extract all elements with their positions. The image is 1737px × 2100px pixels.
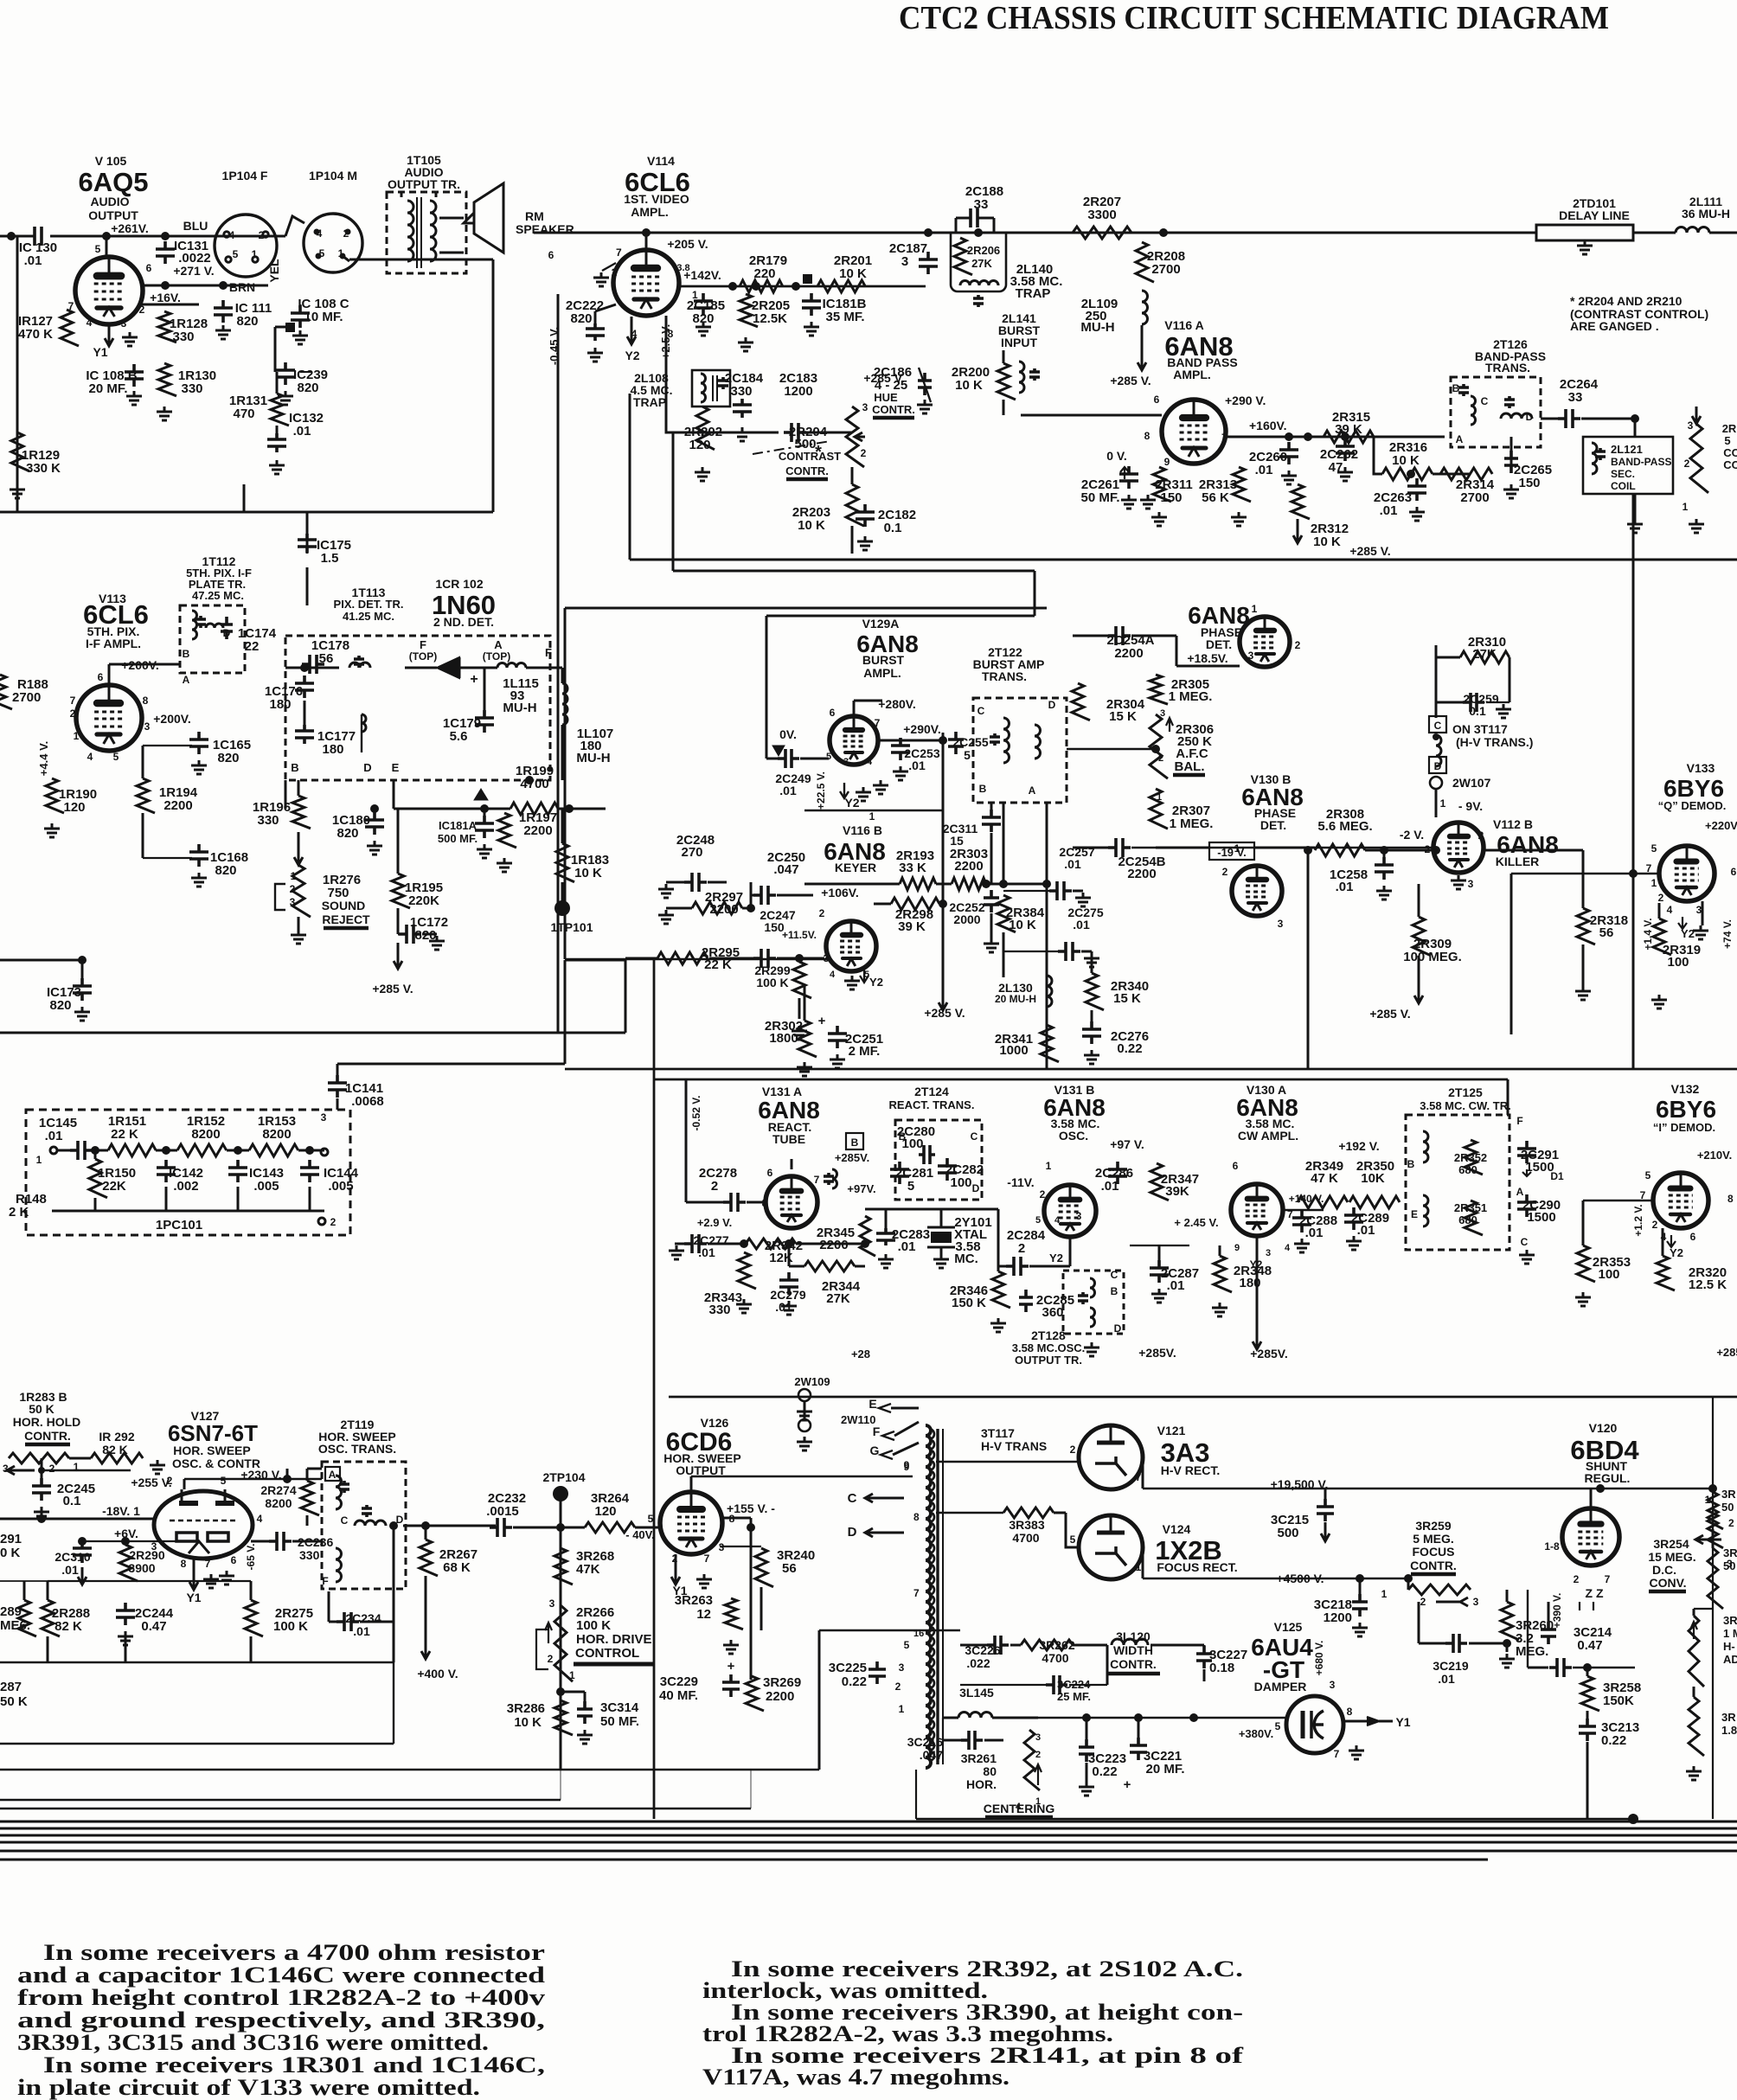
capacitor 3C223 (1079, 1739, 1094, 1762)
svg-text:+28: +28 (851, 1348, 870, 1361)
wire cage right (1712, 1397, 1714, 1819)
svg-text:+255 V.: +255 V. (131, 1476, 171, 1489)
coil 2L140 (960, 281, 998, 286)
svg-text:6AQ5: 6AQ5 (79, 167, 149, 197)
svg-text:3: 3 (1278, 918, 1284, 930)
svg-text:15: 15 (950, 834, 964, 848)
resistor 3R269 (746, 1676, 764, 1711)
coil 2T119 mid (355, 1521, 386, 1526)
svg-text:56: 56 (782, 1561, 797, 1576)
svg-text:D.C.: D.C. (1652, 1563, 1676, 1577)
svg-text:+285 V.: +285 V. (372, 982, 413, 996)
resistor 2R353 (1577, 1245, 1595, 1282)
wire mid bus (565, 958, 830, 961)
wire +142V line (679, 285, 926, 288)
capacitor 3C314 (577, 1701, 593, 1724)
svg-text:2: 2 (167, 1475, 173, 1487)
svg-text:REACT. TRANS.: REACT. TRANS. (889, 1098, 975, 1111)
svg-text:HUE: HUE (874, 391, 898, 404)
svg-text:330: 330 (730, 384, 752, 399)
resistor 2R304 (1072, 683, 1090, 720)
svg-text:6BY6: 6BY6 (1656, 1096, 1716, 1123)
svg-text:3: 3 (144, 720, 151, 733)
svg-text:2: 2 (861, 447, 867, 459)
svg-text:.01: .01 (45, 1129, 63, 1143)
resistor 1R131 (271, 394, 289, 426)
resistor 2R207 (1073, 227, 1131, 239)
svg-text:(TOP): (TOP) (483, 650, 510, 663)
wire bottom rail b (0, 1799, 561, 1801)
svg-text:.01: .01 (908, 759, 926, 772)
svg-text:REGUL.: REGUL. (1585, 1471, 1631, 1485)
svg-text:CONTROL: CONTROL (575, 1646, 639, 1661)
tube V131A (766, 1176, 817, 1228)
svg-text:4: 4 (1285, 1243, 1291, 1253)
svg-text:0 V.: 0 V. (1106, 449, 1127, 463)
wire osc plate (1253, 1237, 1261, 1349)
svg-text:7: 7 (875, 717, 881, 729)
wire 1C141 up (337, 1063, 565, 1066)
capacitor 2C286 (1108, 1162, 1127, 1184)
coil 2L109 (1142, 291, 1148, 324)
svg-text:3: 3 (862, 401, 868, 413)
svg-text:2: 2 (1425, 843, 1431, 855)
resistor 2R346 (992, 1271, 1010, 1308)
capacitor 3C218 (1352, 1594, 1368, 1617)
capacitor 1C174 (206, 624, 223, 628)
svg-text:22K: 22K (102, 1179, 126, 1194)
svg-text:TUBE: TUBE (772, 1132, 805, 1146)
svg-text:5: 5 (904, 1639, 910, 1651)
svg-text:C: C (977, 705, 985, 717)
svg-text:FOCUS RECT.: FOCUS RECT. (1157, 1560, 1237, 1574)
svg-text:.0068: .0068 (351, 1094, 384, 1109)
pot tap 2R266 (536, 1629, 548, 1669)
capacitor 1C178 (302, 655, 324, 674)
svg-text:100: 100 (901, 1136, 923, 1151)
svg-text:B: B (1111, 1285, 1118, 1297)
svg-text:+16V.: +16V. (150, 291, 181, 304)
svg-text:1: 1 (291, 870, 297, 882)
svg-text:820: 820 (49, 998, 71, 1013)
svg-text:E: E (392, 761, 400, 774)
capacitor 1C172 (399, 925, 421, 944)
wire grid net (48, 1580, 251, 1582)
svg-text:25 MF.: 25 MF. (1057, 1690, 1091, 1703)
svg-text:+1.2 V.: +1.2 V. (1632, 1204, 1644, 1236)
svg-text:2200: 2200 (709, 902, 738, 917)
resistor 2R200 (997, 363, 1016, 400)
svg-text:V120: V120 (1589, 1421, 1618, 1435)
wire 2R310 loop (1435, 645, 1438, 718)
svg-text:56 K: 56 K (1202, 490, 1229, 505)
tube V116B (826, 921, 876, 971)
svg-text:CONTRAST: CONTRAST (779, 450, 841, 463)
svg-text:+74 V.: +74 V. (1721, 919, 1734, 949)
capacitor 1C143 (228, 1160, 247, 1182)
svg-text:.01: .01 (1064, 857, 1081, 871)
resistor 2R384 (997, 895, 1016, 932)
svg-text:A: A (494, 638, 503, 651)
svg-text:I-F AMPL.: I-F AMPL. (86, 637, 141, 650)
svg-text:7: 7 (70, 695, 76, 707)
svg-text:-11V.: -11V. (1007, 1175, 1034, 1189)
svg-text:6: 6 (767, 1167, 773, 1179)
capacitor 3C216 (961, 1731, 983, 1750)
tube V124 (1079, 1515, 1143, 1579)
svg-text:6: 6 (231, 1554, 237, 1566)
svg-text:22 K: 22 K (111, 1127, 138, 1142)
resistor 2R343 (738, 1252, 756, 1289)
svg-text:1: 1 (1683, 501, 1689, 513)
svg-text:5: 5 (1651, 842, 1657, 855)
capacitor 2C262 (1336, 439, 1355, 461)
tube V116A (1162, 400, 1226, 464)
svg-text:1-8: 1-8 (1544, 1540, 1560, 1553)
resistor 2R290 (119, 1545, 138, 1581)
svg-text:.005: .005 (328, 1179, 353, 1194)
svg-text:Y2: Y2 (1250, 1258, 1263, 1271)
capacitor 3C221 (1130, 1738, 1147, 1760)
svg-text:35 MF.: 35 MF. (825, 310, 864, 324)
svg-text:V112 B: V112 B (1493, 817, 1533, 831)
svg-text:KEYER: KEYER (835, 861, 876, 874)
svg-text:3: 3 (843, 757, 849, 767)
svg-text:50: 50 (1721, 1501, 1734, 1514)
svg-text:DELAY LINE: DELAY LINE (1559, 208, 1630, 222)
svg-text:REJECT: REJECT (322, 912, 370, 926)
svg-text:180: 180 (322, 742, 343, 757)
resistor 2R320 (1657, 1256, 1675, 1290)
svg-text:820: 820 (236, 314, 258, 329)
svg-text:10 K: 10 K (798, 518, 825, 533)
svg-text:56: 56 (1599, 925, 1614, 940)
svg-text:1: 1 (36, 1154, 42, 1166)
svg-text:.002: .002 (173, 1179, 198, 1194)
svg-text:0.1: 0.1 (884, 521, 902, 535)
wire burst box left (564, 608, 567, 959)
wire bandpass bottom rail (630, 559, 1737, 561)
svg-text:820: 820 (215, 863, 236, 878)
svg-text:7: 7 (913, 1587, 920, 1599)
resistor 2R266 (554, 1605, 573, 1681)
resistor 2R352 (1465, 1140, 1483, 1175)
resistor 2R298 (891, 898, 939, 910)
svg-text:+285 V.: +285 V. (1369, 1007, 1410, 1021)
svg-text:+4500 V.: +4500 V. (1276, 1572, 1324, 1585)
svg-text:5: 5 (1645, 1169, 1651, 1181)
svg-text:4700: 4700 (1012, 1531, 1039, 1545)
svg-text:1TP101: 1TP101 (550, 920, 593, 934)
wire contrast (851, 467, 854, 484)
wire 1R194 net (142, 813, 144, 858)
svg-text:12.5 K: 12.5 K (1689, 1277, 1727, 1292)
svg-text:BAL.: BAL. (1175, 759, 1205, 774)
capacitor 2C261 (1119, 466, 1138, 489)
svg-text:+285V.: +285V. (1138, 1346, 1176, 1360)
svg-text:1200: 1200 (1324, 1610, 1352, 1625)
svg-text:- 40V.: - 40V. (625, 1528, 655, 1541)
capacitor 2C236 (269, 1532, 292, 1551)
boxed B (846, 1133, 863, 1149)
svg-text:8: 8 (913, 1511, 920, 1523)
svg-text:5: 5 (1275, 1720, 1281, 1732)
svg-text:5: 5 (233, 248, 239, 260)
svg-text:CONTR.: CONTR. (785, 464, 829, 477)
svg-text:10 K: 10 K (1313, 535, 1341, 549)
svg-text:500 MF.: 500 MF. (438, 832, 478, 845)
svg-text:6SN7-6T: 6SN7-6T (168, 1420, 258, 1446)
resistor 2R208 (1136, 242, 1154, 282)
capacitor 2C252 (984, 890, 999, 912)
svg-text:from height control 1R282A-: from height control 1R282A-2 to +400v (17, 1985, 545, 2010)
ground V114 pin7 (602, 263, 616, 271)
wire phase drop (1307, 850, 1310, 1069)
wire 6bd4 plate (1590, 1489, 1593, 1508)
svg-text:1.8: 1.8 (1721, 1724, 1737, 1737)
svg-text:E: E (1411, 1208, 1418, 1220)
wire hv cage bottom (916, 1818, 1633, 1821)
wire q demod drop (1702, 901, 1704, 925)
svg-text:.01: .01 (779, 784, 797, 797)
wire D out (403, 1525, 496, 1527)
svg-text:AMPL.: AMPL. (631, 205, 669, 219)
capacitor 2C253 (891, 738, 910, 760)
svg-text:A: A (1029, 784, 1036, 797)
svg-text:2700: 2700 (1460, 490, 1489, 505)
svg-text:DAMPER: DAMPER (1254, 1680, 1307, 1693)
svg-text:V116 B: V116 B (843, 823, 882, 837)
svg-text:3: 3 (121, 317, 127, 330)
wire rc bottom (94, 1198, 97, 1211)
wire burst net (804, 810, 943, 812)
svg-text:+210V.: +210V. (1697, 1149, 1732, 1162)
svg-text:1PC101: 1PC101 (156, 1218, 202, 1232)
resistor 1R195 (392, 874, 410, 908)
wire bp out (1541, 418, 1566, 420)
svg-text:2: 2 (1035, 1750, 1041, 1760)
resistor 1R150 (89, 1159, 107, 1198)
svg-text:3C229: 3C229 (660, 1674, 698, 1689)
capacitor 1C181A (475, 816, 494, 838)
svg-text:0.22: 0.22 (1117, 1041, 1142, 1056)
coil 1L115 (497, 663, 526, 668)
wire afc (1067, 748, 1156, 750)
svg-text:D: D (972, 1182, 980, 1194)
coil 2L130 (1047, 976, 1052, 1007)
wire bus6 (0, 1859, 1488, 1861)
svg-text:C: C (848, 1491, 857, 1506)
svg-text:39 K: 39 K (898, 919, 926, 934)
svg-text:* 2R204 AND 2R210: * 2R204 AND 2R210 (1570, 294, 1683, 308)
svg-text:33: 33 (974, 197, 989, 212)
resistor 3R261 (1024, 1730, 1040, 1790)
svg-text:3: 3 (1468, 878, 1474, 890)
svg-text:2: 2 (895, 1681, 901, 1693)
svg-text:2000: 2000 (953, 912, 980, 926)
svg-text:+19,500 V.: +19,500 V. (1271, 1477, 1329, 1491)
svg-text:27K: 27K (1472, 647, 1497, 662)
capacitor 1C180 (365, 812, 384, 835)
capacitor 3C226 (987, 1636, 1009, 1655)
capacitor 2C255 (948, 732, 964, 754)
svg-text:.01: .01 (1336, 880, 1354, 894)
svg-text:+1.4 V.: +1.4 V. (1642, 918, 1654, 950)
capacitor 2C254A (1108, 626, 1131, 645)
svg-text:+290 V.: +290 V. (1225, 394, 1266, 407)
capacitor 2C249 (778, 749, 799, 768)
svg-text:20 MF.: 20 MF. (1145, 1762, 1184, 1777)
svg-text:1: 1 (1136, 1561, 1142, 1573)
svg-text:120: 120 (689, 438, 710, 452)
svg-text:MU-H: MU-H (576, 751, 610, 765)
capacitor 2C184 (733, 399, 752, 418)
potentiometer 2R306 (1150, 714, 1168, 778)
svg-text:.047: .047 (773, 862, 798, 877)
svg-text:PIX. DET. TR.: PIX. DET. TR. (334, 598, 404, 611)
svg-text:Y1: Y1 (93, 345, 107, 359)
svg-text:5 MEG.: 5 MEG. (1413, 1532, 1453, 1546)
svg-text:3: 3 (1076, 1210, 1082, 1222)
svg-text:+106V.: +106V. (821, 886, 858, 900)
capacitor 1C130 (35, 227, 42, 246)
svg-text:+ 2.45 V.: + 2.45 V. (1174, 1216, 1218, 1229)
tube V120 (1562, 1508, 1619, 1565)
capacitor 2C260 (1279, 442, 1298, 464)
svg-text:3: 3 (1688, 419, 1694, 432)
svg-text:V133: V133 (1687, 761, 1715, 775)
svg-text:39 K: 39 K (1335, 422, 1362, 437)
svg-text:16: 16 (913, 1629, 924, 1639)
svg-text:2TP104: 2TP104 (542, 1470, 585, 1484)
capacitor 1C165 (189, 732, 208, 754)
wire +271V (142, 285, 268, 287)
svg-text:82 K: 82 K (102, 1443, 128, 1457)
svg-text:.01: .01 (293, 424, 311, 439)
svg-text:47.25 MC.: 47.25 MC. (192, 589, 244, 602)
svg-text:and a capacitor 1C146C wer: and a capacitor 1C146C were connected (17, 1962, 546, 1988)
svg-text:100 K: 100 K (273, 1619, 308, 1634)
svg-text:.01: .01 (1167, 1278, 1185, 1293)
capacitor 1C144 (300, 1160, 319, 1182)
svg-text:+: + (1124, 1777, 1131, 1792)
svg-text:6: 6 (830, 707, 836, 719)
svg-text:BRN: BRN (229, 280, 255, 294)
capacitor 3C219 (1445, 1634, 1467, 1653)
svg-text:B: B (851, 1136, 859, 1149)
svg-text:F: F (420, 638, 426, 651)
svg-text:820: 820 (337, 826, 358, 841)
svg-text:8200: 8200 (262, 1127, 291, 1142)
svg-text:3R261: 3R261 (961, 1751, 997, 1765)
svg-text:820: 820 (217, 751, 239, 765)
resistor 1R190 (46, 778, 64, 813)
wire Y1 (105, 324, 113, 346)
svg-text:100 K: 100 K (576, 1618, 611, 1633)
svg-text:2 MF.: 2 MF. (849, 1044, 881, 1059)
tube V105 (75, 257, 143, 324)
svg-text:3R391, 3C315 and 3C316 wer: 3R391, 3C315 and 3C316 were omitted. (17, 2030, 489, 2055)
capacitor 2C282 (938, 1158, 957, 1181)
svg-text:36 MU-H: 36 MU-H (1682, 207, 1730, 221)
svg-text:1: 1 (869, 810, 875, 823)
svg-text:680: 680 (1458, 1163, 1477, 1176)
coil on 3T117 (1436, 735, 1441, 766)
svg-text:CONTR.: CONTR. (1410, 1559, 1457, 1572)
resistor 2R319 (1653, 919, 1671, 955)
wire burst box top (565, 607, 1047, 610)
wire killer drop (1632, 1034, 1635, 1069)
svg-text:IR 292: IR 292 (99, 1430, 134, 1444)
svg-text:WIDTH: WIDTH (1113, 1643, 1153, 1657)
wire 2L121 (1634, 419, 1637, 437)
resistor 1R276 (292, 865, 311, 917)
svg-text:1 MEG.: 1 MEG. (1169, 689, 1213, 704)
capacitor 2C259 (1463, 693, 1484, 712)
svg-text:SPEAKER: SPEAKER (516, 222, 574, 236)
wire keyer plate (804, 883, 900, 886)
capacitor 3C215 (1317, 1499, 1334, 1521)
svg-text:50 K: 50 K (29, 1402, 54, 1416)
svg-text:4: 4 (1016, 1802, 1022, 1812)
svg-text:+205 V.: +205 V. (667, 237, 708, 251)
svg-text:150: 150 (1160, 490, 1182, 505)
svg-text:YEL: YEL (267, 259, 281, 283)
svg-text:-0.52 V.: -0.52 V. (690, 1096, 702, 1131)
resistor 1R153 (249, 1144, 298, 1156)
svg-text:MU-H: MU-H (503, 701, 536, 715)
svg-text:2 ND. DET.: 2 ND. DET. (433, 615, 494, 629)
wire lower bus1 (565, 1068, 1737, 1071)
capacitor 2C277 (684, 1234, 707, 1253)
label -19V (1209, 842, 1254, 860)
top bus (534, 232, 1536, 234)
svg-text:2W110: 2W110 (841, 1413, 875, 1426)
svg-text:(H-V TRANS.): (H-V TRANS.) (1456, 735, 1533, 749)
svg-text:270: 270 (681, 845, 702, 860)
svg-text:10 K: 10 K (574, 866, 602, 880)
resistor 1R197 (498, 813, 516, 848)
resistor 2R348 (1214, 1256, 1232, 1292)
svg-text:1: 1 (569, 1669, 575, 1681)
wire bp (1374, 437, 1382, 474)
svg-text:CO: CO (1723, 458, 1737, 471)
capacitor 1C179 (475, 710, 494, 733)
capacitor 3C225 (868, 1661, 886, 1684)
svg-text:+261V.: +261V. (111, 221, 148, 235)
svg-text:5: 5 (113, 751, 119, 763)
svg-text:2200: 2200 (163, 798, 192, 813)
svg-text:B: B (291, 761, 298, 774)
svg-text:2R206: 2R206 (967, 244, 1000, 257)
resistor 2R274 (301, 1481, 319, 1515)
svg-text:1 M: 1 M (1723, 1627, 1737, 1640)
svg-text:2200: 2200 (1127, 867, 1156, 881)
svg-text:7: 7 (205, 1558, 211, 1570)
resistor 1R199 (510, 803, 558, 815)
svg-text:3.58 MC. CW. TR.: 3.58 MC. CW. TR. (1420, 1099, 1510, 1112)
capacitor 2C283 (876, 1228, 895, 1245)
svg-text:39K: 39K (1165, 1184, 1189, 1199)
wire osc trans (306, 1469, 309, 1481)
wire Y1 v127 (189, 1559, 198, 1590)
svg-text:2: 2 (290, 883, 296, 895)
capacitor 1C181B (802, 293, 821, 316)
svg-text:6: 6 (1233, 1160, 1239, 1172)
svg-text:+140 V.: +140 V. (1289, 1193, 1324, 1205)
partial right 3R (1689, 1697, 1704, 1756)
svg-text:50 MF.: 50 MF. (600, 1714, 639, 1729)
